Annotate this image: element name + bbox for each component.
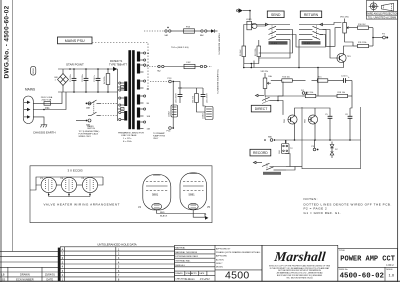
resistor R11 (353, 42, 373, 48)
svg-text:7A2: 7A2 (157, 69, 161, 72)
zener D2 (330, 142, 338, 159)
svg-text:C4 47u: C4 47u (341, 76, 347, 78)
svg-text:TR1: TR1 (347, 56, 352, 58)
svg-text:TITLE: TITLE (339, 250, 345, 252)
heater chain 1 terminals b (195, 30, 208, 37)
resistor R15 (312, 77, 334, 83)
direct jack JK3 (255, 94, 278, 103)
svg-text:8A2: 8A2 (200, 34, 204, 37)
heater chain 1 terminals (165, 27, 172, 37)
svg-text:FS2: FS2 (187, 62, 192, 64)
svg-text:C3 47u: C3 47u (94, 76, 96, 82)
fuse FS2 (164, 62, 195, 69)
svg-text:DATE: DATE (199, 272, 205, 275)
relay RL1 (279, 144, 293, 154)
send jack body (269, 41, 288, 45)
svg-text:R16 10k: R16 10k (282, 77, 289, 79)
svg-text:4500: 4500 (225, 270, 250, 282)
power valve V5 (180, 173, 211, 210)
wire vr2 down (345, 38, 353, 46)
heater box entry wires (30, 185, 36, 190)
svg-text:TR2: TR2 (284, 118, 286, 123)
stage2 wires c (318, 95, 332, 97)
wire tr1 b (323, 30, 338, 59)
psu top link (180, 87, 203, 89)
svg-text:R5 470: R5 470 (193, 95, 195, 102)
svg-text:ACTION: ACTION (216, 258, 224, 261)
resistor R3 (255, 40, 261, 61)
return wiring bundle (320, 28, 341, 47)
T1 secondary pins (140, 52, 146, 129)
psu note text (79, 130, 100, 138)
svg-text:Marshall: Marshall (273, 249, 327, 264)
Marshall logo block (262, 245, 338, 281)
wire switch to primary live (100, 102, 118, 104)
capacitor C8 (345, 112, 352, 127)
svg-text:MATERIAL THICKNESS: MATERIAL THICKNESS (175, 251, 197, 254)
wire return down (298, 40, 300, 68)
svg-text:INTERNAL RAD.: INTERNAL RAD. (175, 260, 191, 263)
svg-text:10A: 10A (268, 75, 272, 78)
wire record a (284, 140, 286, 144)
svg-text:SWITCH: SWITCH (87, 128, 95, 130)
projection symbol cone (381, 3, 393, 11)
resistor R5 (193, 88, 199, 107)
opto LDR1 (246, 19, 257, 30)
RECORD label box (250, 149, 271, 156)
svg-text:ISSUE: ISSUE (386, 269, 393, 271)
wire bus to relay (285, 140, 287, 144)
svg-text:4B: 4B (147, 89, 150, 91)
stage2 wires e (295, 108, 331, 112)
HT arrow out (113, 67, 118, 75)
fuse FS1 (41, 96, 53, 110)
svg-text:MODEL: MODEL (216, 267, 224, 269)
T1 secondary winding 6 (137, 121, 140, 130)
svg-text:BEND ALL: BEND ALL (175, 264, 185, 267)
svg-text:VALVE HEATER WIRING ARRANGEMEN: VALVE HEATER WIRING ARRANGEMENT (44, 202, 121, 206)
stage2 input rail (253, 61, 255, 68)
capacitor C5 (325, 112, 332, 127)
svg-text:G1 = GRID REF. G1.: G1 = GRID REF. G1. (304, 211, 342, 215)
svg-text:1 = 117v: 1 = 117v (123, 138, 132, 140)
svg-text:10B: 10B (147, 116, 151, 118)
terminal pair P2 (76, 119, 91, 126)
return jack body (302, 41, 321, 45)
junction neutral (43, 109, 45, 111)
heater chain 1 wire (144, 30, 164, 32)
svg-text:E = 234v: E = 234v (123, 141, 133, 143)
terminal A top (236, 8, 250, 20)
svg-text:MAINS: MAINS (25, 88, 35, 92)
heater red wire (157, 210, 205, 214)
svg-text:P13: P13 (168, 78, 173, 80)
svg-text:PRIMARIES LINKED FOR: PRIMARIES LINKED FOR (118, 132, 144, 135)
svg-text:R10 2k2: R10 2k2 (358, 24, 366, 26)
border right edge (397, 0, 399, 282)
capacitor C4 (333, 76, 352, 83)
svg-text:RED: RED (160, 212, 165, 214)
heater wiring bottom (49, 196, 90, 198)
wire neutral (33, 92, 66, 110)
fuse FS3 (171, 27, 195, 34)
SEND label box (267, 11, 284, 18)
wire live (33, 102, 44, 104)
svg-text:11B: 11B (147, 129, 151, 131)
bus line mid (243, 67, 319, 69)
heater black wire (160, 210, 205, 218)
svg-text:APPROVED: APPROVED (216, 255, 228, 258)
resistor R12 (302, 92, 318, 98)
hole data table (60, 243, 174, 282)
svg-text:MAINS PSU: MAINS PSU (65, 39, 85, 43)
svg-text:DRAWN: DRAWN (175, 272, 183, 275)
svg-text:C2 100u: C2 100u (82, 74, 84, 82)
svg-text:SEND: SEND (271, 13, 281, 17)
wire tr1 down to stage2 (318, 65, 344, 68)
T1 secondary winding 4 (137, 95, 140, 105)
svg-text:R4 220k: R4 220k (104, 77, 106, 84)
output section frame (302, 107, 361, 169)
connector header CON3 (203, 107, 214, 120)
pot VR2 (340, 17, 351, 39)
svg-text:CLIFF: CLIFF (271, 43, 278, 45)
transistor TR2 (284, 112, 297, 127)
svg-text:250V 5.20A: 250V 5.20A (41, 96, 53, 99)
svg-text:K.Ross: K.Ross (184, 277, 195, 281)
svg-text:T6-1a (SEE 2.4G): T6-1a (SEE 2.4G) (171, 47, 189, 49)
svg-text:P3: P3 (382, 33, 385, 35)
transformer T1 label (109, 59, 127, 66)
svg-text:DATE: DATE (46, 278, 53, 282)
svg-text:TYPE TBB-ATT: TYPE TBB-ATT (109, 63, 127, 67)
svg-text:DWG.No. - 4500-60-02: DWG.No. - 4500-60-02 (4, 5, 11, 78)
svg-text:CON2: CON2 (169, 111, 171, 117)
svg-text:MATERIAL: MATERIAL (175, 247, 186, 250)
transistor TR3 (305, 112, 318, 127)
wire send sleeve down (259, 30, 293, 54)
resistor bottoms bracket (244, 57, 259, 68)
mains switch SW1 (88, 100, 100, 116)
star point bottom bus (58, 91, 118, 93)
svg-text:CLIFF: CLIFF (304, 43, 311, 45)
stage2 wires d (351, 81, 353, 97)
connector header CON2 (169, 105, 178, 117)
drawing title block (338, 248, 398, 281)
record terminals (268, 136, 276, 142)
issue table bottom left (0, 251, 58, 281)
svg-text:EXTERNAL BEND RADII: EXTERNAL BEND RADII (175, 255, 198, 258)
svg-text:100u 350V: 100u 350V (207, 93, 209, 103)
svg-text:TEL: MILTON KEYNES 375411: TEL: MILTON KEYNES 375411 (286, 277, 312, 279)
transformer T1 core (128, 50, 134, 129)
svg-text:DRILLº: DRILLº (216, 262, 223, 265)
transistor TR1 (337, 51, 352, 65)
svg-text:1.0: 1.0 (389, 273, 395, 278)
wire record b (286, 166, 302, 168)
terminal P4 (301, 90, 307, 94)
heater chain 2 terminals b (195, 65, 212, 67)
preamp feed note (153, 132, 166, 140)
T1 secondary winding 1 (137, 52, 140, 62)
wire send down 2 (259, 40, 290, 59)
node A (205, 212, 209, 220)
wire opto to send (257, 25, 266, 27)
svg-text:250V T4A: 250V T4A (42, 99, 52, 102)
svg-text:TX: TX (290, 148, 293, 150)
T1 secondary winding 5 (137, 108, 140, 118)
svg-text:CHASSIS EARTH: CHASSIS EARTH (33, 130, 55, 134)
capacitor C3 (94, 69, 101, 92)
third angle projection box (366, 1, 397, 20)
psu mid rail top (173, 82, 180, 89)
valve V3 (81, 177, 97, 197)
svg-text:VR3 22k: VR3 22k (261, 71, 269, 73)
DIRECT label box (251, 105, 270, 112)
stage2 wires a (265, 95, 302, 96)
wire jacks link (290, 35, 326, 48)
svg-text:LINE VOLTAGE: LINE VOLTAGE (121, 134, 137, 137)
svg-text:THIRD ANGLE PROJECTION: THIRD ANGLE PROJECTION (366, 13, 398, 16)
dashed psu boundary (92, 43, 148, 92)
wire record c (286, 167, 295, 171)
capacitor C1 (70, 69, 77, 92)
resistor R16 (271, 77, 306, 83)
svg-text:CON3: CON3 (203, 113, 205, 119)
svg-text:DIRECT: DIRECT (255, 107, 268, 111)
T1 primary winding 2 (124, 97, 127, 107)
svg-text:3 X ECC83: 3 X ECC83 (67, 169, 82, 173)
svg-text:C1 100u: C1 100u (70, 74, 72, 82)
terminal P5 P6 (312, 140, 319, 151)
svg-text:2A8: 2A8 (86, 106, 91, 109)
svg-text:STAR POINT: STAR POINT (66, 62, 84, 66)
svg-text:TO HEATER ELEMENTS: TO HEATER ELEMENTS (216, 69, 219, 94)
heater box left wires (98, 177, 103, 185)
wire R5 to CON3 (197, 107, 206, 112)
TITLE BLOCKS (0, 243, 398, 282)
svg-text:D2: D2 (335, 149, 338, 151)
T1 secondary pin labels (147, 52, 151, 131)
svg-text:LB: LB (1, 273, 4, 277)
thick separator bar (58, 248, 61, 282)
heater chain 2 terminals (144, 65, 164, 72)
svg-text:P14: P14 (167, 131, 172, 133)
capacitor C2 (82, 69, 89, 92)
pot VR3 (261, 71, 273, 95)
stage2 wires b (317, 79, 319, 96)
primaries linked note (118, 132, 144, 143)
svg-text:+: + (348, 76, 350, 79)
junction dots bottom bus (73, 91, 109, 93)
MAINS PSU label box (58, 37, 93, 44)
chassis earth symbol (40, 124, 47, 128)
svg-text:BLACK: BLACK (160, 215, 168, 218)
svg-text:RETURN: RETURN (304, 13, 319, 17)
border left strip divider (12, 0, 14, 252)
wire send to R1 (244, 25, 266, 41)
svg-text:100u 350V: 100u 350V (176, 93, 178, 103)
svg-text:TOL: UNNOTED ±0.25MM: TOL: UNNOTED ±0.25MM (368, 16, 396, 19)
stage2 wires h (350, 96, 352, 108)
svg-text:NOTES:: NOTES: (304, 197, 318, 201)
svg-text:HEATER ELEMENTS: HEATER ELEMENTS (217, 34, 220, 56)
power valve V4 (138, 175, 171, 211)
heater wiring link2 (77, 184, 83, 186)
svg-text:APPROVED BY: APPROVED BY (216, 247, 231, 250)
svg-text:C5: C5 (325, 114, 328, 116)
T1 primary winding 3 (124, 111, 127, 121)
material data block (175, 245, 263, 281)
svg-text:ECN NUMBER: ECN NUMBER (16, 278, 34, 282)
svg-text:1 OF 2: 1 OF 2 (386, 264, 394, 267)
svg-text:V5: V5 (207, 206, 211, 209)
border bottom edge (0, 280, 400, 282)
svg-text:PLEASE QUOTE DRAWING NUMBER WI: PLEASE QUOTE DRAWING NUMBER WITH ALL (216, 251, 261, 254)
stage2 vert rail (317, 68, 319, 79)
svg-text:VR2 470k: VR2 470k (340, 17, 349, 19)
terminal pair P1 (86, 102, 91, 109)
svg-text:4500-60-02: 4500-60-02 (340, 272, 384, 280)
valve heater box (30, 166, 212, 223)
svg-text:DRAWN: DRAWN (20, 273, 30, 277)
wire relay drop (285, 154, 290, 167)
bridge rectifier BR1 (55, 69, 69, 92)
svg-text:RECORD: RECORD (253, 151, 268, 155)
svg-text:5881: 5881 (189, 192, 196, 196)
T1 primary winding 1 (124, 82, 127, 92)
junction dots top bus (69, 68, 109, 70)
svg-text:DWG No: DWG No (339, 269, 349, 271)
svg-text:POWER AMP CCT: POWER AMP CCT (340, 256, 395, 264)
svg-text:WIRED ONLY: WIRED ONLY (79, 136, 92, 138)
resistor R10 (351, 24, 374, 30)
svg-text:5881: 5881 (152, 192, 159, 196)
svg-text:9B: 9B (147, 103, 150, 105)
wire tr1 up (344, 46, 354, 51)
svg-text:UNTOLERANCED HOLE DATA: UNTOLERANCED HOLE DATA (97, 243, 136, 247)
svg-text:ONLY: ONLY (153, 138, 159, 140)
svg-text:15/04/91: 15/04/91 (45, 273, 56, 277)
stage2 wires f (314, 108, 316, 112)
return jack JK2 (299, 23, 323, 39)
notes text (304, 197, 392, 215)
T1 secondary winding 2 (137, 64, 140, 74)
svg-text:LDR1: LDR1 (246, 19, 252, 21)
mains connector CON1 (23, 96, 33, 124)
wire C7 to CON3 (203, 103, 205, 107)
wire direct to stage (278, 82, 283, 101)
T1 primary select links (118, 75, 125, 121)
star point top bus (58, 68, 118, 70)
stage2 wires g (349, 108, 351, 112)
wire live to bridge (51, 92, 62, 103)
psu mid rail (172, 82, 174, 127)
capacitor C6 (176, 88, 183, 103)
svg-text:R18 10k: R18 10k (338, 92, 345, 94)
resistor R4 (104, 69, 110, 92)
heater wiring top (36, 177, 103, 185)
svg-text:V4: V4 (138, 206, 142, 209)
svg-text:R3 100k: R3 100k (255, 49, 257, 56)
T1 secondary winding 3 (137, 80, 140, 90)
svg-text:SOLD: SOLD (33, 68, 35, 74)
RETURN label box (300, 11, 321, 18)
valve V1 (40, 177, 56, 197)
output jack P3 (372, 28, 388, 46)
capacitor C7 (201, 88, 209, 103)
svg-text:R1 2k2: R1 2k2 (240, 49, 242, 56)
heater wiring link (56, 184, 61, 186)
stage2 bottom bus (264, 139, 360, 141)
fuseholder capsule (31, 66, 36, 75)
svg-text:1: 1 (55, 80, 57, 82)
projection symbol circle (369, 1, 379, 11)
svg-text:C8: C8 (345, 114, 348, 116)
resistor R1 (240, 40, 246, 68)
svg-text:9A2: 9A2 (165, 34, 169, 37)
svg-text:FS3: FS3 (186, 27, 191, 29)
border left edge (0, 0, 2, 282)
wire return to vr2 (323, 23, 342, 25)
svg-text:ISS: ISS (1, 278, 5, 282)
svg-text:R11 220k: R11 220k (358, 42, 366, 44)
svg-text:1A: 1A (147, 52, 150, 55)
svg-text:9A0: 9A0 (268, 136, 273, 139)
record jack JK4 (253, 161, 286, 175)
svg-text:15/4/91: 15/4/91 (200, 277, 211, 281)
return wiring bundle 2 (320, 34, 323, 36)
wire earth (33, 117, 44, 124)
resistor R18 (332, 92, 352, 98)
wire switch to primary neutral (100, 115, 118, 117)
svg-text:RATED T1: RATED T1 (110, 59, 123, 63)
wire direct node (278, 101, 283, 115)
valve V2 (60, 177, 76, 197)
terminal P14 (167, 127, 175, 133)
send jack JK1 (266, 23, 291, 39)
T1 primary pins (119, 82, 124, 121)
heater chain 1 diode (207, 29, 218, 33)
stage2 drops to bus (295, 127, 351, 140)
terminal P13 (150, 78, 174, 83)
svg-text:RL1: RL1 (279, 149, 281, 154)
svg-text:APP'D: APP'D (191, 272, 197, 275)
svg-text:R15: R15 (318, 77, 323, 79)
svg-text:TR3: TR3 (305, 118, 307, 123)
